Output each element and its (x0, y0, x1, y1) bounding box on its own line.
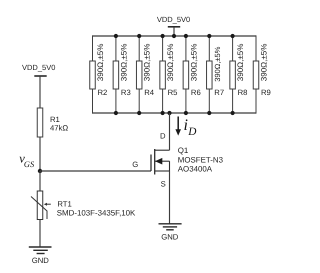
wire (node to RT1) (39, 171, 41, 191)
svg-text:R7: R7 (214, 88, 224, 97)
resistor R4 (136, 36, 142, 113)
resistor R3 (113, 36, 119, 113)
junction (top rail / R4) (137, 34, 141, 38)
resistor R9 (253, 35, 259, 113)
junction (bottom rail / R6) (184, 111, 188, 115)
junction (top rail / R8) (231, 34, 235, 38)
label i_D (184, 117, 197, 138)
svg-text:G: G (132, 160, 138, 169)
svg-text:390Ω,±5%: 390Ω,±5% (96, 44, 105, 82)
resistor R1 (37, 108, 43, 137)
svg-text:47kΩ: 47kΩ (50, 123, 68, 132)
svg-text:390Ω,±5%: 390Ω,±5% (143, 44, 152, 82)
svg-text:S: S (161, 180, 166, 189)
power VDD_5V0 (left) (22, 63, 55, 76)
svg-text:GS: GS (24, 160, 35, 169)
junction (top rail / R7) (207, 34, 211, 38)
node v_GS (38, 169, 42, 173)
svg-text:Q1: Q1 (178, 146, 189, 155)
svg-text:D: D (160, 132, 166, 141)
svg-text:R6: R6 (191, 88, 201, 97)
svg-text:D: D (187, 126, 196, 138)
junction (top rail / VDD stub) (172, 34, 176, 38)
svg-text:SMD-103F-3435F,10K: SMD-103F-3435F,10K (57, 208, 136, 217)
svg-text:MOSFET-N3: MOSFET-N3 (178, 155, 224, 164)
wire bottom rail (93, 112, 257, 114)
svg-text:390Ω,±5%: 390Ω,±5% (166, 44, 175, 82)
svg-text:390Ω,±5%: 390Ω,±5% (213, 46, 222, 81)
current arrow i_D (175, 117, 181, 136)
wire (R1 to node) (39, 137, 41, 171)
svg-text:R8: R8 (238, 88, 248, 97)
svg-text:R9: R9 (261, 88, 271, 97)
svg-text:AO3400A: AO3400A (178, 164, 213, 173)
wire (RT1 to GND) (39, 220, 41, 248)
power VDD_5V0 (top) (157, 15, 190, 36)
junction (top rail / R5) (161, 34, 165, 38)
resistor R2 (90, 35, 96, 113)
svg-text:R2: R2 (98, 88, 108, 97)
svg-text:GND: GND (161, 232, 179, 241)
wire (source to GND) (169, 171, 171, 224)
wire (drain) (169, 113, 171, 150)
wire (gate) (40, 170, 151, 172)
resistor R5 (160, 36, 166, 113)
junction (top rail / R3) (114, 34, 118, 38)
resistor R8 (230, 36, 236, 113)
ground GND (Q1 source) (159, 224, 182, 230)
thermistor RT1 (31, 191, 51, 220)
wire top rail (93, 35, 257, 37)
svg-text:R5: R5 (168, 88, 178, 97)
resistor R6 (183, 36, 189, 113)
junction (bottom rail / R8) (231, 111, 235, 115)
svg-text:390Ω,±5%: 390Ω,±5% (119, 44, 128, 82)
svg-text:390Ω,±5%: 390Ω,±5% (189, 44, 198, 82)
svg-text:390Ω,±5%: 390Ω,±5% (259, 44, 268, 82)
label v_GS (19, 151, 35, 169)
svg-text:RT1: RT1 (57, 199, 71, 208)
svg-text:390Ω,±5%: 390Ω,±5% (236, 44, 245, 82)
junction (bottom rail / R7) (207, 111, 211, 115)
svg-text:GND: GND (32, 256, 50, 265)
svg-text:VDD_5V0: VDD_5V0 (157, 15, 190, 24)
svg-text:R3: R3 (121, 88, 131, 97)
resistor R7 (207, 36, 213, 113)
junction (bottom rail / R3) (114, 111, 118, 115)
junction (bottom rail / R5) (161, 111, 165, 115)
junction (bottom rail / drain wire) (167, 111, 171, 115)
wire (VDD bar to R1) (39, 76, 41, 108)
ground GND (left) (29, 247, 52, 254)
svg-text:VDD_5V0: VDD_5V0 (22, 63, 55, 72)
junction (bottom rail / R4) (137, 111, 141, 115)
transistor Q1 (N-MOSFET) (151, 149, 170, 175)
junction (top rail / R6) (184, 34, 188, 38)
svg-text:R4: R4 (144, 88, 155, 97)
